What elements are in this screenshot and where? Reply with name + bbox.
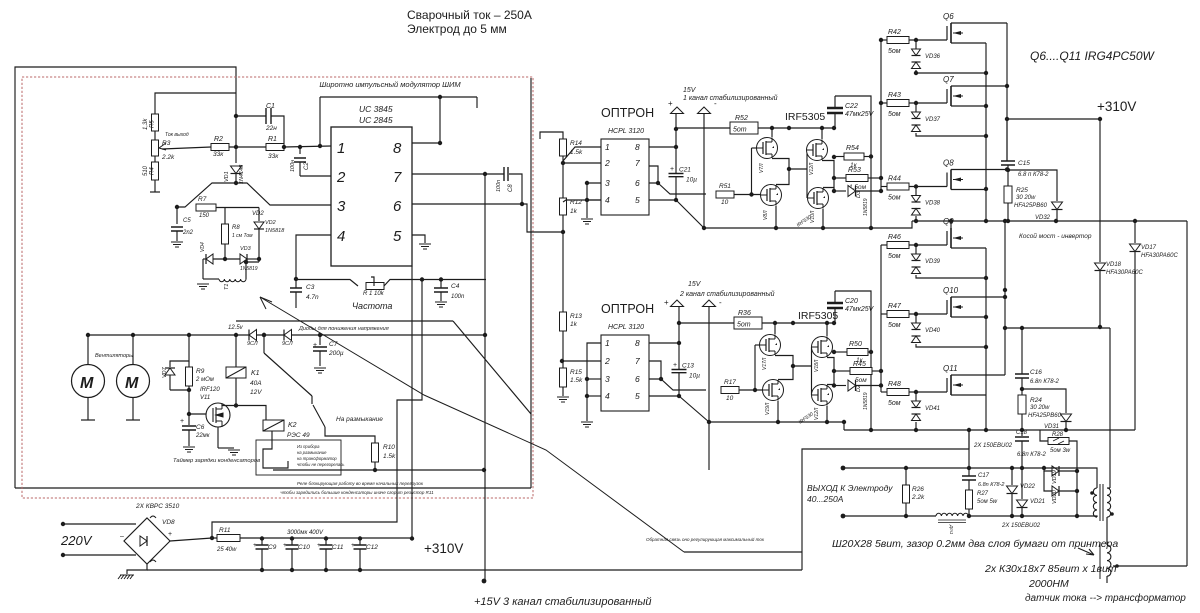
wire V17 source to 15V (774, 323, 776, 335)
svg-text:C13: C13 (682, 363, 694, 370)
wire opto2 pin5 (649, 395, 679, 397)
capacitor C9 (260, 536, 264, 540)
resistor R43 (881, 102, 887, 104)
svg-text:Сварочный ток – 250А: Сварочный ток – 250А (407, 8, 532, 22)
wire left pair drains (772, 159, 789, 185)
svg-text:V12Л: V12Л (809, 162, 815, 175)
wire right pair output node ch2 (827, 358, 834, 385)
capacitor C12 (358, 536, 362, 540)
svg-text:HCPL 3120: HCPL 3120 (608, 128, 644, 135)
wire gate rail left pair ch2 (755, 344, 760, 346)
svg-text:VD32: VD32 (1035, 215, 1051, 221)
svg-text:VD41: VD41 (925, 406, 940, 412)
svg-text:VD21: VD21 (1030, 499, 1045, 505)
wire gate Q11 (909, 391, 947, 393)
wire V19 source to rail (777, 401, 779, 423)
resistor R10 (372, 443, 379, 462)
svg-text:2 канал стабилизированный: 2 канал стабилизированный (679, 290, 775, 298)
svg-text:ВЫХОД К Электроду: ВЫХОД К Электроду (807, 483, 893, 493)
node pot bus (420, 277, 424, 281)
wire R4 bottom end (154, 180, 156, 192)
source rail bottom bank (985, 248, 987, 430)
svg-text:РЭС 49: РЭС 49 (287, 432, 310, 439)
svg-text:+: + (317, 542, 321, 549)
resistor R4 (152, 162, 159, 180)
wire frame bottom (15, 487, 531, 489)
svg-text:Вентиляторы: Вентиляторы (95, 353, 133, 359)
wire Q9 drain (950, 221, 952, 228)
junction driver1 rail (702, 226, 873, 230)
node R1 right (282, 145, 286, 149)
wire R25 to mid rail (1007, 203, 1009, 221)
svg-text:D2: D2 (856, 385, 862, 392)
diode D3 (833, 188, 835, 192)
svg-text:5ом: 5ом (888, 253, 901, 260)
svg-text:ОПТРОН: ОПТРОН (601, 106, 654, 120)
svg-text:R1: R1 (268, 136, 277, 143)
capacitor C18 (1021, 430, 1023, 436)
zener VD7 (165, 368, 175, 375)
wire pin6 to LED chain (522, 204, 563, 232)
svg-text:5: 5 (635, 391, 640, 401)
wire Q7 drain (951, 85, 1007, 87)
supply rail Vcc vertical (484, 174, 486, 581)
wire opto2 output diagonal (661, 379, 706, 390)
feedback diagonal from frequency pot (260, 297, 684, 552)
resistor R24 (1021, 378, 1023, 389)
svg-text:HCPL 3120: HCPL 3120 (608, 324, 644, 331)
resistor R8 (224, 208, 226, 225)
svg-text:Т1: Т1 (224, 284, 230, 290)
capacitor C21 (669, 174, 684, 177)
resistor R12 (562, 163, 564, 198)
svg-text:40A: 40A (250, 380, 262, 387)
IC UC3845 body (331, 127, 412, 266)
svg-text:+: + (180, 418, 184, 425)
resistor R5 (152, 114, 159, 131)
resistor R51 (716, 191, 734, 198)
svg-text:1N5819: 1N5819 (863, 392, 869, 410)
wire Q11 drain (951, 374, 1005, 376)
mosfet V18 ch2 (812, 337, 833, 358)
wire R36 output (762, 322, 834, 324)
svg-text:3000мк 400V: 3000мк 400V (287, 530, 324, 536)
wire 15V- ch2 down (708, 422, 710, 470)
terminal output plus (841, 466, 846, 471)
svg-text:6.8 п К78-2: 6.8 п К78-2 (1018, 172, 1049, 178)
svg-text:R28: R28 (1052, 432, 1064, 438)
suppressor VD41 (915, 392, 917, 401)
capacitor C2 (299, 147, 301, 154)
svg-text:R13: R13 (570, 313, 582, 320)
capacitor C15 snubber (1006, 119, 1008, 161)
driver2 bottom rail (709, 422, 844, 430)
wire R28 down (1069, 441, 1077, 516)
wire V12b source to rail (826, 406, 828, 423)
wire sensor bottom (1106, 576, 1108, 583)
svg-text:9СЛ: 9СЛ (282, 341, 293, 347)
wire 15V- rail ch2 (708, 307, 710, 422)
svg-text:2х К30х18х7 85вит х 1вит: 2х К30х18х7 85вит х 1вит (984, 563, 1117, 575)
wire primary feed (1109, 328, 1111, 488)
svg-text:+: + (664, 298, 669, 307)
svg-text:R42: R42 (888, 29, 901, 36)
svg-text:V12Л: V12Л (814, 407, 820, 420)
junction neg rail (967, 428, 1068, 432)
wire first stage out to second gates (789, 168, 807, 170)
svg-text:Из прибора: Из прибора (297, 444, 320, 449)
suppressor VD38 (915, 187, 917, 196)
capacitor C10 (290, 536, 294, 540)
wire Q8 drain (951, 169, 1007, 171)
svg-text:R2: R2 (214, 136, 223, 143)
wire bridge minus to ground (127, 564, 147, 574)
wire source Q11 (951, 394, 986, 396)
wire Q10 drain (951, 296, 1005, 298)
mosfet V12 ch1 (807, 140, 828, 161)
wire source Q9 (951, 247, 986, 249)
resistor R3 (preset) (152, 140, 159, 156)
svg-text:C11: C11 (332, 544, 344, 551)
svg-text:R45: R45 (853, 361, 866, 368)
junction mid rail (949, 219, 1137, 223)
svg-text:150: 150 (199, 213, 210, 219)
capacitor C22 (827, 108, 843, 113)
svg-text:R7: R7 (198, 196, 207, 203)
wire V11 drain to K1 node (222, 404, 236, 406)
wire opto2 pin2 (562, 360, 601, 362)
wire K2 contact to R10 (325, 427, 375, 443)
svg-text:R15: R15 (570, 369, 582, 376)
wire R50 to minus rail (868, 351, 871, 353)
capacitor C5 (176, 207, 178, 224)
svg-text:47мк25V: 47мк25V (845, 111, 875, 118)
driver1 bottom rail (704, 221, 912, 228)
svg-text:M: M (125, 375, 139, 392)
capacitor C17 (968, 468, 970, 476)
svg-text:на трансформатор: на трансформатор (297, 456, 337, 461)
wire K1 coil bottom (235, 378, 237, 406)
wire pin5 diagonal to rail ch2 (679, 396, 709, 422)
svg-text:22н: 22н (265, 125, 277, 132)
svg-text:8: 8 (635, 142, 640, 152)
svg-text:1k: 1k (570, 321, 578, 328)
wire neg rail to C17 column (968, 430, 970, 468)
suppressor VD39 (915, 245, 917, 254)
svg-text:R43: R43 (888, 92, 901, 99)
wire feedback riser (802, 430, 969, 570)
svg-text:+: + (351, 542, 355, 549)
svg-text:R11: R11 (219, 527, 231, 534)
junction output top (904, 466, 1024, 470)
gate rail bottom bank (880, 245, 882, 392)
wire frame right (530, 78, 532, 488)
svg-text:40...250А: 40...250А (807, 494, 844, 504)
capacitor C16 (1021, 328, 1023, 374)
wire 15V+ rail ch1 (675, 114, 677, 173)
svg-text:9СЛ: 9СЛ (247, 341, 258, 347)
diode VD20 (1044, 471, 1052, 491)
svg-text:R17: R17 (724, 379, 736, 386)
svg-text:2X КВРС 3510: 2X КВРС 3510 (135, 503, 180, 510)
svg-text:R26: R26 (912, 486, 924, 493)
svg-text:6: 6 (393, 198, 402, 215)
svg-text:VD4: VD4 (200, 242, 206, 252)
wire K1 contact to K2 contact (311, 396, 313, 404)
resistor R1 (266, 144, 284, 151)
bridge rectifier VD8 (124, 518, 170, 564)
supply arrow ch1 minus (698, 107, 711, 114)
wire source Q8 (951, 189, 986, 191)
diode supply D-b (284, 330, 292, 341)
resistor R28 (1040, 430, 1048, 441)
svg-text:5ом: 5ом (888, 111, 901, 118)
svg-text:R27: R27 (977, 491, 989, 497)
wire current-sense trapezoid (177, 183, 331, 207)
diode supply D-a (249, 330, 257, 341)
wire V10 source to rail (822, 209, 824, 229)
annotation box K2 (256, 440, 341, 475)
svg-text:4: 4 (605, 391, 610, 401)
svg-text:7: 7 (393, 169, 402, 186)
relay K1 coil (235, 335, 237, 367)
wire gate Q8 (909, 186, 947, 188)
svg-text:47мк25V: 47мк25V (845, 306, 875, 313)
svg-text:ОПТРОН: ОПТРОН (601, 302, 654, 316)
diode VD17 (1134, 221, 1136, 243)
gate rail top bank (880, 40, 882, 191)
resistor R13 (560, 312, 567, 331)
svg-text:R53: R53 (848, 167, 861, 174)
svg-text:C15: C15 (1018, 160, 1030, 167)
svg-text:4.7n: 4.7n (306, 294, 319, 301)
svg-text:100н: 100н (290, 160, 296, 172)
wire R52 output (758, 127, 834, 129)
svg-text:10µ: 10µ (686, 177, 697, 184)
capacitor C20 (827, 303, 843, 308)
output rail bottom (843, 515, 936, 517)
wire vcc drop right to pin8 (476, 97, 478, 108)
svg-text:K1: K1 (251, 370, 260, 377)
svg-text:C10: C10 (298, 544, 310, 551)
svg-text:V10Л: V10Л (810, 210, 816, 223)
resistor R52 (676, 127, 730, 129)
svg-text:VD1: VD1 (224, 171, 230, 182)
svg-text:IRF120: IRF120 (200, 387, 220, 393)
svg-text:2 мОм: 2 мОм (195, 377, 214, 383)
svg-text:-: - (714, 99, 717, 108)
terminal output minus (841, 514, 846, 519)
resistor R26 (903, 485, 910, 503)
svg-text:510: 510 (143, 165, 149, 176)
svg-text:V17Л: V17Л (762, 357, 768, 370)
mosfet V12b ch2 (812, 385, 833, 406)
+310V rail top (1007, 118, 1100, 120)
wire pot node to rectifier staircase (212, 280, 422, 539)
svg-text:C12: C12 (366, 544, 378, 551)
resistor R48 (881, 391, 887, 393)
wire R5-R3 (154, 131, 156, 140)
svg-text:VD39: VD39 (925, 259, 941, 265)
svg-text:R25: R25 (1016, 187, 1028, 194)
svg-text:1: 1 (337, 140, 345, 157)
svg-text:+: + (668, 99, 673, 108)
svg-text:30 20w: 30 20w (1030, 405, 1050, 411)
svg-text:1: 1 (605, 338, 610, 348)
svg-text:HFA30PA60C: HFA30PA60C (1141, 253, 1178, 259)
wire T1 left (203, 278, 219, 280)
wire V11 source ground (217, 427, 219, 448)
wire source Q10 (951, 316, 986, 318)
svg-text:5ом: 5ом (888, 195, 901, 202)
svg-text:R10: R10 (383, 444, 395, 451)
resistor R17 (721, 387, 739, 394)
svg-text:Ш20Х28 5вит, зазор 0.2мм два с: Ш20Х28 5вит, зазор 0.2мм два слоя бумаги… (832, 538, 1118, 550)
svg-text:V7Л: V7Л (759, 163, 765, 173)
svg-text:+310V: +310V (1097, 99, 1136, 114)
svg-text:на размыкание: на размыкание (297, 450, 327, 455)
svg-text:4: 4 (605, 195, 610, 205)
wire pin5 ground (412, 235, 425, 243)
wire V8 source to rail (775, 206, 777, 229)
wire pin6 out (412, 203, 522, 205)
svg-text:Реле блокирующая работу во вре: Реле блокирующая работу во время начальн… (297, 481, 424, 486)
svg-text:Q6: Q6 (943, 12, 954, 21)
svg-text:5om: 5om (737, 322, 751, 329)
output rail top (843, 467, 1094, 469)
resistor R53 (834, 177, 846, 179)
svg-text:R14: R14 (570, 140, 582, 147)
wire R53 out (868, 177, 881, 179)
drain rail bottom bank (1004, 221, 1006, 375)
wire R14 to pins1/2 (562, 156, 564, 163)
svg-text:1: 1 (605, 142, 610, 152)
svg-text:Q7: Q7 (943, 75, 954, 84)
resistor R42 (881, 39, 887, 41)
diode VD18 (1099, 119, 1101, 262)
svg-text:C9: C9 (268, 544, 277, 551)
wire transformer bottom node (1005, 327, 1110, 329)
svg-text:200µ: 200µ (328, 350, 344, 357)
output choke (936, 513, 968, 516)
diode VD31 (1022, 389, 1066, 413)
svg-text:+310V: +310V (424, 541, 463, 556)
source rail top bank (985, 43, 987, 221)
wire 15V+ rail ch2 (678, 307, 680, 369)
resistor R45 (834, 370, 850, 372)
wire R24 to neg rail (1021, 414, 1023, 430)
wire gate rail left pair ch1 (752, 147, 758, 149)
wire opto1 pin4 to gnd rail (587, 199, 601, 201)
svg-text:1N5818: 1N5818 (265, 228, 285, 234)
svg-text:3: 3 (605, 374, 610, 384)
wire source Q7 (951, 105, 986, 107)
PWM module boundary (red dashed) (22, 77, 533, 498)
wire gate Q10 (909, 313, 947, 315)
wire opto1 pin1 (563, 147, 601, 161)
svg-text:2.2k: 2.2k (911, 494, 925, 501)
svg-text:C16: C16 (1030, 369, 1042, 376)
svg-text:2: 2 (604, 158, 610, 168)
svg-text:K2: K2 (288, 422, 297, 429)
svg-text:1,3k: 1,3k (143, 118, 149, 130)
svg-text:UC 2845: UC 2845 (359, 115, 393, 125)
mosfet V17 ch2 (760, 335, 781, 356)
wire IC box drop (411, 266, 413, 538)
wire R8 bottom (224, 244, 226, 259)
svg-text:7: 7 (635, 356, 640, 366)
wire V18 source to 15V (826, 323, 828, 337)
diode VD1 (235, 147, 237, 163)
junction top sources (914, 71, 988, 223)
svg-text:6.8n К78-2: 6.8n К78-2 (1030, 379, 1060, 385)
svg-text:Дт1: Дт1 (949, 524, 954, 535)
wire C8 down to pin6 net (509, 174, 522, 204)
svg-text:4: 4 (337, 228, 345, 245)
svg-text:С18: С18 (1016, 430, 1028, 436)
wire R45 out (872, 370, 881, 372)
wire opto2 pins 6/7 bracket (649, 361, 661, 379)
wire RT bus to pot (296, 280, 358, 287)
svg-text:33к: 33к (268, 153, 279, 160)
wire C20 top to minus rail (835, 291, 871, 430)
svg-text:VD31: VD31 (1044, 424, 1059, 430)
svg-text:3: 3 (605, 178, 610, 188)
wire R5 top to feedback node (155, 93, 236, 114)
wire R51 to gates (734, 194, 761, 196)
diode VD2 (258, 208, 260, 222)
svg-text:1N4148: 1N4148 (239, 164, 245, 184)
svg-text:+: + (253, 542, 257, 549)
wire feedback bottom run (684, 551, 802, 553)
diode D2 (833, 385, 835, 386)
wire opto2 pin4 (587, 395, 601, 397)
mosfet V19 ch2 (763, 380, 784, 401)
svg-text:VD2: VD2 (265, 220, 276, 226)
svg-text:6: 6 (635, 374, 640, 384)
svg-text:С6: С6 (196, 424, 205, 431)
svg-text:датчик тока --> трансформатор: датчик тока --> трансформатор (1025, 592, 1186, 604)
svg-text:R24: R24 (1030, 397, 1042, 404)
wire R1 to pin1 (284, 146, 331, 147)
junction top drains (1005, 84, 1009, 172)
svg-text:R36: R36 (738, 310, 751, 317)
wire gate Q7 (909, 102, 947, 104)
mosfet V7 ch1 (757, 138, 778, 159)
capacitor C8 (504, 167, 508, 181)
svg-text:+: + (313, 342, 317, 349)
svg-text:VD8: VD8 (162, 519, 175, 526)
svg-text:Обратная связь оно регулирующа: Обратная связь оно регулирующая максимал… (646, 536, 765, 542)
svg-text:Таймер зарядки конденсаторов: Таймер зарядки конденсаторов (173, 457, 260, 464)
wire VD2 bottom (258, 229, 260, 262)
svg-text:чтобы зарядились большие конде: чтобы зарядились большие конденсаторы ин… (280, 490, 434, 495)
wire timer output (273, 469, 484, 471)
svg-text:UC 3845: UC 3845 (359, 104, 393, 114)
capacitor C1 (236, 115, 266, 117)
junction fan bus (86, 333, 266, 337)
svg-text:12V: 12V (250, 389, 262, 396)
transformer T1 winding (219, 279, 246, 282)
svg-text:V18Л: V18Л (814, 359, 820, 372)
svg-text:2.2k: 2.2k (161, 154, 175, 161)
svg-text:5ом: 5ом (888, 400, 901, 407)
wire pin5 diagonal to rail (676, 200, 704, 228)
wire R17 to gates (739, 389, 764, 391)
wire feedback frame left/top (15, 67, 236, 488)
resistor R7 (196, 204, 216, 211)
svg-text:R3: R3 (162, 140, 171, 147)
